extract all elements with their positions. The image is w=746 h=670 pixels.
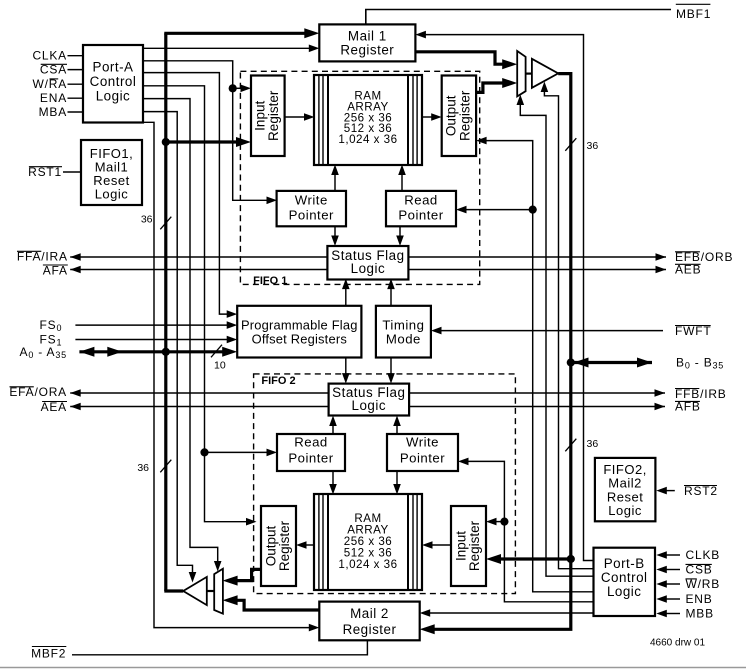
wire Port-A to Mail 1 Register (write enable) — [143, 47, 311, 49]
wire Port-A line3 down to Programmable Flag Offset Registers — [143, 73, 230, 315]
svg-text:FIFO 2: FIFO 2 — [261, 375, 295, 387]
memory RAM ARRAY FIFO1 — [314, 75, 422, 165]
wire Read Pointer 2 to RAM Array 2 — [332, 471, 334, 487]
wire branch to Input Register 1 enable — [233, 87, 243, 89]
svg-text:CLKB: CLKB — [686, 548, 721, 562]
tri-state buffer A-side (triangle) — [183, 577, 207, 605]
svg-text:Reset: Reset — [607, 489, 643, 504]
wire Port-B to Mail 2 Register (write enable) — [428, 612, 594, 614]
bus width slash 36 on A spine upper — [160, 217, 171, 230]
wire Port-B to Write Pointer 2 and Input Register 2 enable — [466, 461, 594, 601]
wire Port-A line4 down to Read Pointer 2 and Output Register 2 — [143, 86, 248, 522]
svg-text:Pointer: Pointer — [289, 207, 334, 222]
bus A spine to Mail 1 Register — [164, 32, 308, 35]
FIFO 2 dashed outline box — [254, 374, 516, 594]
logic Programmable Flag Offset Registers — [237, 306, 361, 358]
wire AEA - AFB flag line — [70, 406, 665, 408]
wire Port-B up to Output Register 1 enable — [485, 141, 594, 592]
svg-text:Register: Register — [340, 42, 394, 57]
junction dot line2 / input register 1 enable — [229, 84, 237, 92]
bus width slash 36 on B spine lower — [565, 439, 576, 452]
svg-text:ENA: ENA — [40, 91, 67, 105]
bus A spine to Input Register 1 — [166, 140, 240, 143]
logic FIFO1 Mail1 Reset — [81, 140, 142, 205]
register Input Register FIFO2 — [451, 506, 486, 586]
wire Write Pointer 2 to RAM Array 2 — [396, 471, 398, 487]
wire W/RA input to Port-A — [68, 83, 85, 85]
wire RAM Array 1 to Output Register 1 — [422, 116, 434, 118]
junction dot A spine / input register 1 data — [162, 138, 170, 146]
svg-text:Timing: Timing — [382, 317, 424, 332]
wire Timing Mode to Status Flag Logic 2 — [390, 358, 392, 377]
svg-text:1,024 x 36: 1,024 x 36 — [338, 133, 397, 146]
wire Port-A line5 down to output mux select (A side) — [143, 99, 218, 564]
svg-text:Control: Control — [601, 570, 648, 585]
junction dot input register 2 enable — [500, 518, 508, 526]
wire branch to Input Register 2 — [494, 521, 504, 523]
mux B-side (trapezoid) — [517, 51, 525, 96]
FIFO 1 dashed outline box — [240, 71, 479, 284]
bus B spine to Input Register 2 — [497, 557, 571, 560]
bus Mail 2 Register to A output mux — [234, 600, 319, 610]
logic Status Flag Logic FIFO1 — [327, 246, 408, 280]
svg-text:OutputRegister: OutputRegister — [444, 90, 473, 141]
wire Write Pointer 1 to Status Flag Logic 1 — [334, 226, 336, 239]
register Output Register FIFO1 — [442, 76, 476, 157]
wire ENB input to Port-B — [664, 598, 680, 600]
wire mux to buffer A-side — [207, 590, 215, 592]
wire CSA input to Port-A — [68, 69, 85, 71]
svg-text:FIFO2,: FIFO2, — [603, 462, 646, 477]
wire W/RB input to Port-B — [664, 583, 680, 585]
wire CLKB input to Port-B — [664, 554, 680, 556]
svg-text:Register: Register — [343, 622, 397, 637]
wire Port-A line2 down to Input Register 1 and Write Pointer 1 — [143, 61, 269, 201]
logic Read Pointer FIFO1 — [386, 191, 456, 226]
bus A-port spine (A0-A35 vertical) — [164, 33, 167, 591]
svg-text:Read: Read — [294, 434, 328, 449]
wire FS1 to offset registers — [75, 339, 229, 341]
wire MBB input to Port-B — [664, 613, 680, 615]
logic Read Pointer FIFO2 — [277, 434, 345, 471]
svg-text:Mail 2: Mail 2 — [350, 606, 389, 621]
mux A-side (trapezoid) — [214, 569, 223, 614]
wire Offset Registers to Status Flag Logic 1 — [345, 286, 347, 306]
wire RST1 input to reset logic — [63, 171, 82, 173]
logic Write Pointer FIFO2 — [387, 434, 458, 471]
logic Port-A Control — [83, 45, 143, 123]
bus A0-A35 line — [79, 350, 226, 353]
svg-text:Logic: Logic — [608, 503, 642, 518]
wire Read Pointer 1 to RAM Array 1 — [401, 172, 403, 191]
wire Read Pointer 2 to Status Flag Logic 2 — [332, 423, 334, 434]
svg-text:Pointer: Pointer — [400, 451, 445, 466]
svg-text:10: 10 — [214, 360, 226, 372]
wire FWFT to Timing Mode — [438, 330, 663, 332]
svg-text:FIFO 1: FIFO 1 — [253, 275, 287, 287]
svg-text:Pointer: Pointer — [398, 207, 443, 222]
svg-text:CLKA: CLKA — [32, 49, 67, 63]
svg-text:Mode: Mode — [386, 332, 421, 347]
svg-text:Logic: Logic — [351, 261, 386, 276]
svg-text:Offset Registers: Offset Registers — [252, 332, 347, 347]
svg-text:Logic: Logic — [607, 584, 642, 599]
wire EFA/ORA - FFB/IRB flag line — [70, 392, 665, 394]
svg-text:Write: Write — [295, 192, 328, 207]
svg-text:MBB: MBB — [686, 607, 714, 621]
register Mail 1 (U-Mail1) — [319, 24, 415, 61]
bus Output Register 2 to A output mux — [234, 569, 261, 580]
svg-text:36: 36 — [587, 438, 599, 450]
svg-text:Port-B: Port-B — [604, 556, 645, 571]
wire Port-A line7 down to Mail 2 Register read enable — [143, 122, 311, 627]
memory RAM ARRAY FIFO2 — [314, 494, 422, 590]
svg-text:MBA: MBA — [39, 105, 67, 119]
svg-text:36: 36 — [137, 462, 149, 474]
svg-text:MBF2: MBF2 — [31, 647, 66, 661]
wire AFA - AEB flag line — [70, 269, 666, 271]
wire Write Pointer 1 to RAM Array 1 — [334, 172, 336, 191]
register Output Register FIFO2 — [261, 506, 296, 586]
svg-text:B0 - B35: B0 - B35 — [676, 355, 724, 370]
logic Status Flag Logic FIFO2 — [329, 384, 410, 416]
wire Read Pointer 1 to Status Flag Logic 1 — [399, 226, 401, 239]
bus width slash 10 on offset register input — [211, 345, 222, 358]
svg-text:MBF1: MBF1 — [676, 7, 711, 21]
svg-text:Pointer: Pointer — [288, 451, 333, 466]
register Mail 2 (U-Mail2) — [319, 602, 419, 641]
junction dot A spine / A0-A35 line — [162, 348, 170, 356]
wire Offset Registers to Status Flag Logic 2 — [345, 358, 347, 377]
wire RAM Array 2 to Output Register 2 — [304, 544, 314, 546]
register Input Register FIFO1 — [251, 76, 285, 157]
svg-text:Write: Write — [406, 434, 439, 449]
wire Input Register 1 to RAM Array 1 — [285, 116, 307, 118]
bus A output buffer to A spine — [164, 589, 183, 592]
logic Timing Mode — [376, 306, 431, 358]
wire Mail 2 Register to MBF2 flag — [72, 640, 367, 655]
wire Port-B up to output mux select (B side) — [520, 102, 593, 576]
bus B0-B35 line — [574, 361, 653, 364]
junction dot read pointer 1 enable — [529, 206, 537, 214]
wire RST2 input to reset logic 2 — [664, 490, 675, 492]
junction dot line4 / read pointer 2 — [200, 448, 208, 456]
logic Write Pointer FIFO1 — [277, 191, 346, 226]
svg-text:Programmable Flag: Programmable Flag — [241, 317, 358, 332]
wire ENA input to Port-A — [68, 97, 85, 99]
bus B-port spine from output buffer down to Mail 2 Register — [431, 74, 571, 630]
bus Output Register 1 to B output mux — [476, 83, 506, 92]
wire Write Pointer 2 to Status Flag Logic 2 — [396, 423, 398, 434]
wire branch to Read Pointer 2 — [205, 451, 270, 453]
wire Port-A line6 down to output buffer enable (A side) — [143, 112, 193, 575]
svg-text:ENB: ENB — [686, 592, 713, 606]
svg-text:1,024 x 36: 1,024 x 36 — [338, 558, 397, 571]
wire branch to Read Pointer 1 — [464, 209, 533, 211]
bus width slash 36 on B spine upper — [565, 138, 576, 151]
wire CSB input to Port-B — [664, 569, 680, 571]
svg-text:Mail2: Mail2 — [608, 476, 642, 491]
wire Timing Mode to Status Flag Logic 1 — [390, 286, 392, 306]
svg-text:Control: Control — [90, 74, 137, 89]
svg-text:Port-A: Port-A — [93, 60, 134, 75]
wire Port-B to Mail 1 Register (read enable) — [424, 35, 594, 561]
svg-text:Logic: Logic — [95, 186, 129, 201]
wire Port-B up to output buffer enable (B side) — [544, 89, 593, 569]
junction dot B spine / input register 2 data — [567, 555, 575, 563]
svg-text:FS0: FS0 — [40, 318, 63, 333]
svg-text:Logic: Logic — [352, 398, 387, 413]
svg-text:OutputRegister: OutputRegister — [263, 520, 292, 571]
svg-text:Mail 1: Mail 1 — [348, 28, 387, 43]
wire Input Register 2 to RAM Array 2 — [430, 544, 451, 546]
logic FIFO2 Mail2 Reset — [595, 458, 656, 521]
tri-state buffer B-side (triangle) — [532, 59, 558, 88]
wire FFA/IRA - EFB/ORB flag line — [70, 256, 666, 258]
wire FS0 to offset registers — [75, 324, 229, 326]
svg-text:Logic: Logic — [96, 88, 131, 103]
svg-text:Read: Read — [404, 192, 438, 207]
wire Mail 1 Register to MBF1 flag — [366, 10, 671, 25]
logic Port-B Control — [594, 548, 656, 616]
svg-text:4660 drw 01: 4660 drw 01 — [650, 638, 705, 649]
wire MBA input to Port-A — [68, 111, 85, 113]
svg-text:36: 36 — [141, 214, 153, 226]
svg-text:36: 36 — [587, 140, 599, 152]
bus Mail 1 Register to B output mux — [415, 52, 506, 64]
wire mux to buffer B-side — [526, 72, 532, 74]
page rule line — [0, 667, 746, 669]
junction dot B spine / B0-B35 line — [567, 358, 575, 366]
wire CLKA input to Port-A — [68, 55, 85, 57]
bus width slash 36 on A spine lower — [160, 460, 171, 473]
